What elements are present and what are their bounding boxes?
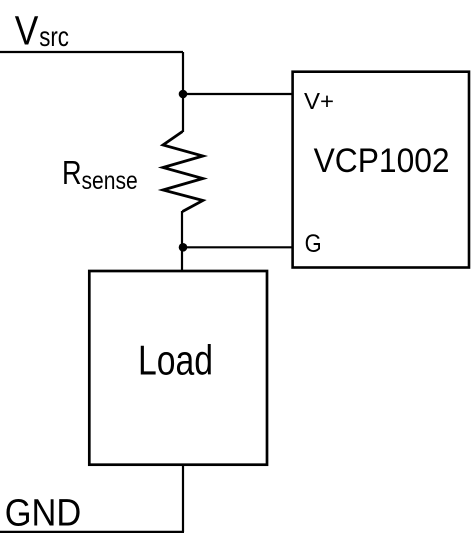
svg-text:V+: V+ xyxy=(304,88,334,114)
resistor Rsense xyxy=(163,132,203,212)
svg-text:GND: GND xyxy=(5,491,82,534)
node junction B (Rsense/Load/G) xyxy=(179,243,188,252)
wire junction B to G pin xyxy=(183,246,292,248)
load block xyxy=(89,271,267,465)
svg-text:R: R xyxy=(62,155,82,192)
label Rsense xyxy=(62,155,138,195)
wire GND rail xyxy=(0,531,184,533)
wire Vsrc vertical drop xyxy=(182,52,184,132)
svg-text:V: V xyxy=(15,7,39,53)
wire resistor bottom to Load xyxy=(181,211,183,270)
net Vsrc label xyxy=(15,7,69,53)
wire Load bottom to GND rail xyxy=(182,465,184,532)
IC VCP1002 box xyxy=(293,72,469,268)
node junction A (Vsrc/Rsense/V+) xyxy=(179,90,188,99)
svg-text:G: G xyxy=(305,230,322,258)
svg-text:src: src xyxy=(39,21,69,52)
svg-text:Load: Load xyxy=(138,336,213,383)
svg-text:sense: sense xyxy=(82,167,138,195)
wire junction A to V+ pin xyxy=(183,93,292,95)
wire Vsrc top rail xyxy=(0,51,183,53)
svg-text:VCP1002: VCP1002 xyxy=(314,142,450,180)
